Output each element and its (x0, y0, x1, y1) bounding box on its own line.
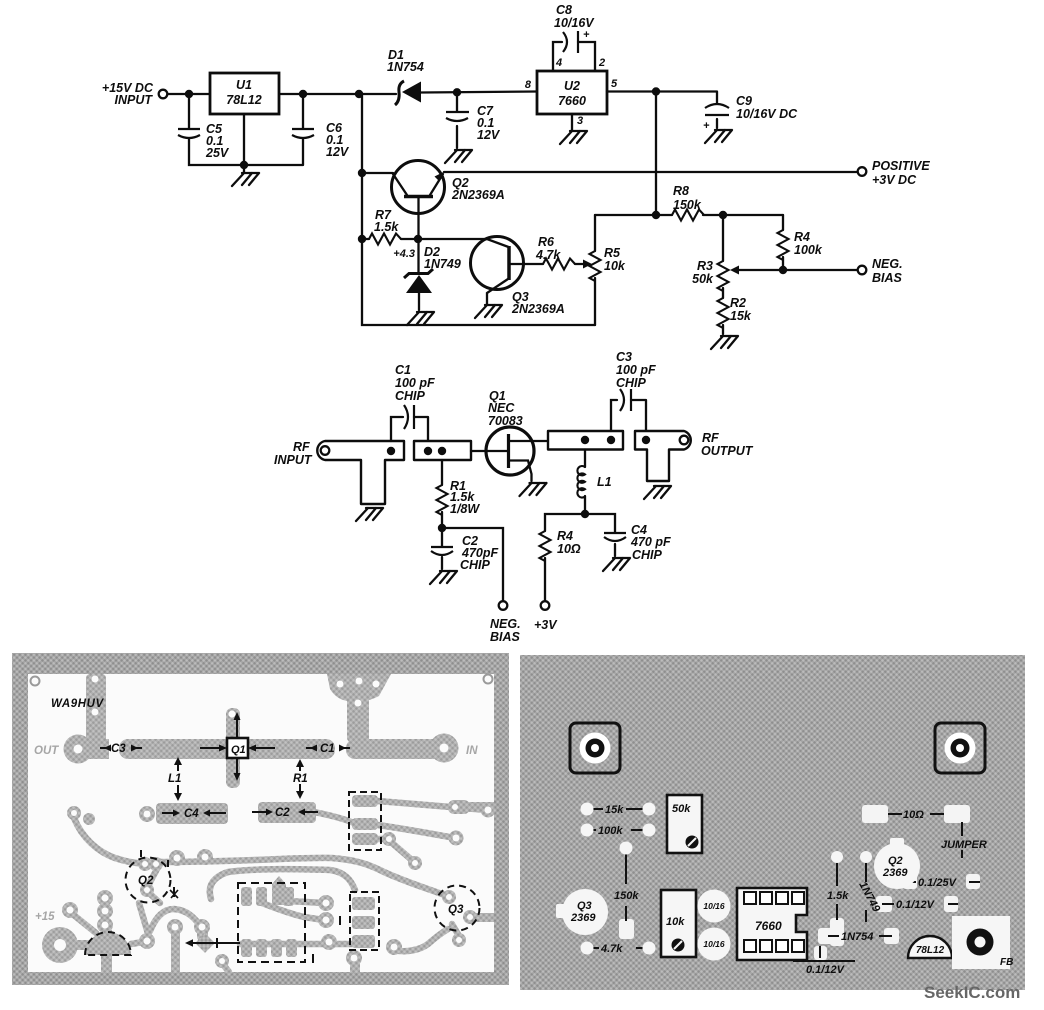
svg-text:C3: C3 (111, 743, 126, 755)
svg-text:BIAS: BIAS (490, 630, 521, 644)
svg-text:1.5k: 1.5k (374, 220, 399, 234)
svg-text:7660: 7660 (755, 919, 782, 933)
svg-text:CHIP: CHIP (632, 548, 663, 562)
svg-text:10/16V: 10/16V (554, 16, 595, 30)
svg-text:3: 3 (577, 115, 583, 127)
svg-text:10k: 10k (604, 259, 626, 273)
svg-text:78L12: 78L12 (226, 93, 261, 107)
svg-text:R2: R2 (730, 296, 746, 310)
svg-text:5: 5 (611, 78, 618, 90)
svg-text:Q2: Q2 (138, 875, 154, 887)
svg-text:BIAS: BIAS (872, 271, 903, 285)
svg-text:15k: 15k (730, 309, 752, 323)
svg-text:0.1/12V: 0.1/12V (806, 964, 846, 976)
svg-text:10Ω: 10Ω (557, 542, 581, 556)
svg-text:C9: C9 (736, 94, 752, 108)
svg-text:C4: C4 (184, 808, 199, 820)
svg-text:15k: 15k (605, 804, 624, 816)
svg-text:Q2: Q2 (888, 855, 903, 867)
svg-text:25V: 25V (205, 146, 230, 160)
svg-text:10Ω: 10Ω (903, 809, 924, 821)
svg-text:C1: C1 (395, 363, 411, 377)
svg-text:7660: 7660 (558, 94, 586, 108)
svg-text:WA9HUV: WA9HUV (51, 698, 105, 710)
svg-text:10k: 10k (666, 916, 685, 928)
svg-text:RF: RF (702, 431, 719, 445)
svg-text:R3: R3 (697, 259, 713, 273)
svg-text:50k: 50k (672, 803, 691, 815)
svg-text:10/16: 10/16 (703, 939, 725, 949)
svg-text:+15: +15 (35, 911, 55, 923)
svg-text:2369: 2369 (570, 912, 596, 924)
svg-text:C3: C3 (616, 350, 632, 364)
svg-text:0.1/25V: 0.1/25V (918, 877, 958, 889)
svg-text:L1: L1 (168, 773, 181, 785)
svg-text:R4: R4 (794, 230, 810, 244)
svg-text:4.7k: 4.7k (535, 248, 561, 262)
svg-text:10/16: 10/16 (703, 901, 725, 911)
svg-text:+3V: +3V (534, 618, 558, 632)
svg-text:RF: RF (293, 440, 310, 454)
svg-text:1/8W: 1/8W (450, 502, 480, 516)
svg-text:R5: R5 (604, 246, 621, 260)
svg-text:U2: U2 (564, 79, 580, 93)
svg-text:R6: R6 (538, 235, 555, 249)
svg-text:R4: R4 (557, 529, 573, 543)
svg-text:INPUT: INPUT (115, 93, 154, 107)
svg-text:JUMPER: JUMPER (941, 839, 987, 851)
svg-text:2: 2 (598, 57, 605, 69)
svg-text:L1: L1 (597, 475, 612, 489)
svg-text:1N749: 1N749 (424, 257, 461, 271)
svg-text:2N2369A: 2N2369A (511, 302, 565, 316)
svg-text:4: 4 (555, 57, 562, 69)
svg-text:NEC: NEC (488, 401, 515, 415)
svg-text:1N754: 1N754 (387, 60, 424, 74)
svg-text:R1: R1 (293, 773, 308, 785)
svg-text:78L12: 78L12 (916, 945, 945, 956)
svg-text:12V: 12V (477, 128, 501, 142)
svg-text:SeekIC.com: SeekIC.com (924, 983, 1020, 1002)
svg-text:R8: R8 (673, 184, 689, 198)
svg-text:INPUT: INPUT (274, 453, 313, 467)
svg-text:50k: 50k (692, 272, 714, 286)
svg-text:C1: C1 (320, 743, 335, 755)
svg-text:100k: 100k (598, 825, 623, 837)
svg-text:+: + (703, 120, 710, 132)
svg-text:8: 8 (525, 79, 532, 91)
svg-text:150k: 150k (673, 198, 702, 212)
svg-text:1N754: 1N754 (841, 931, 873, 943)
svg-text:+4.3: +4.3 (393, 248, 415, 260)
svg-text:1.5k: 1.5k (827, 890, 849, 902)
svg-text:CHIP: CHIP (460, 558, 491, 572)
svg-text:Q3: Q3 (577, 900, 592, 912)
svg-text:NEG.: NEG. (872, 257, 903, 271)
svg-text:10/16V DC: 10/16V DC (736, 107, 798, 121)
svg-text:100 pF: 100 pF (616, 363, 656, 377)
svg-text:100 pF: 100 pF (395, 376, 435, 390)
svg-text:U1: U1 (236, 78, 252, 92)
svg-text:12V: 12V (326, 145, 350, 159)
svg-text:70083: 70083 (488, 414, 523, 428)
svg-text:Q3: Q3 (448, 904, 464, 916)
svg-text:Q1: Q1 (231, 744, 246, 756)
svg-text:2N2369A: 2N2369A (451, 188, 505, 202)
svg-text:+: + (583, 29, 590, 41)
svg-text:C8: C8 (556, 3, 572, 17)
svg-text:OUTPUT: OUTPUT (701, 444, 754, 458)
svg-text:IN: IN (466, 745, 478, 757)
svg-text:C2: C2 (275, 807, 290, 819)
svg-text:0.1/12V: 0.1/12V (896, 899, 936, 911)
svg-text:OUT: OUT (34, 745, 59, 757)
svg-text:100k: 100k (794, 243, 823, 257)
svg-text:470 pF: 470 pF (630, 535, 671, 549)
svg-text:NEG.: NEG. (490, 617, 521, 631)
svg-text:2369: 2369 (882, 867, 908, 879)
svg-text:4.7k: 4.7k (600, 943, 623, 955)
svg-text:POSITIVE: POSITIVE (872, 159, 930, 173)
svg-text:FB: FB (1000, 957, 1013, 968)
svg-text:150k: 150k (614, 890, 639, 902)
svg-text:CHIP: CHIP (395, 389, 426, 403)
svg-text:CHIP: CHIP (616, 376, 647, 390)
svg-text:+3V DC: +3V DC (872, 173, 917, 187)
